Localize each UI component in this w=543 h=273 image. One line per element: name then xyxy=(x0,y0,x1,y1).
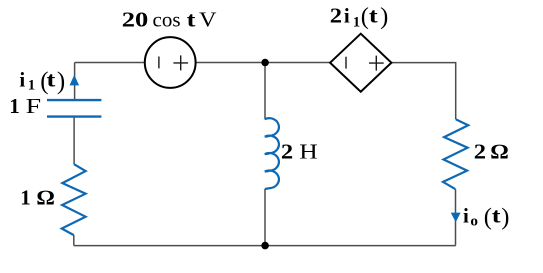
svg-text:i: i xyxy=(344,3,350,27)
svg-text:1: 1 xyxy=(20,185,31,209)
current arrow io(t) pointing down xyxy=(451,213,461,223)
dependent source U1 diamond (2 i1(t)) xyxy=(330,34,391,92)
svg-text:t: t xyxy=(369,3,378,27)
wire: top-left horizontal from left corner to source circle xyxy=(75,62,145,64)
label 1 ohm resistor value xyxy=(20,185,54,209)
label io(t) output current xyxy=(463,203,509,230)
svg-text:2: 2 xyxy=(330,3,342,27)
svg-text:Ω: Ω xyxy=(37,185,55,209)
wire: bottom horizontal rail xyxy=(74,245,456,247)
svg-text:): ) xyxy=(57,68,65,95)
minus terminal bar inside source circle xyxy=(158,57,160,69)
resistor R1 1-ohm zigzag xyxy=(62,164,86,235)
wire: capacitor bottom plate down to 1-ohm resistor xyxy=(73,117,75,165)
wire: middle vertical from top node down to inductor xyxy=(264,63,266,120)
wire: source circle to diamond left vertex (through top node) xyxy=(196,62,331,64)
current arrow i1(t) pointing up xyxy=(70,75,80,86)
svg-text:2: 2 xyxy=(281,140,293,164)
label 1 F capacitor value xyxy=(9,94,41,118)
label 2i1(t) for dependent source xyxy=(330,3,388,31)
svg-text:i: i xyxy=(19,68,25,92)
label 2 H inductor value xyxy=(281,140,318,164)
voltage source V1 circle (20 cos t V) xyxy=(145,37,196,88)
plus sign inside diamond xyxy=(369,56,384,71)
label 2 ohm resistor value xyxy=(474,140,509,164)
svg-text:(: ( xyxy=(361,3,369,30)
svg-text:H: H xyxy=(299,140,318,164)
svg-text:t: t xyxy=(47,68,56,92)
svg-text:Ω: Ω xyxy=(491,140,509,164)
svg-text:1: 1 xyxy=(353,14,361,30)
svg-text:): ) xyxy=(501,204,509,231)
svg-text:1: 1 xyxy=(9,94,19,118)
inductor L1 coil (2 H) xyxy=(265,118,279,189)
wire: left vertical from top-left corner down to capacitor top plate xyxy=(74,63,76,100)
svg-text:V: V xyxy=(199,8,217,32)
svg-text:1: 1 xyxy=(28,78,36,94)
svg-text:cos: cos xyxy=(153,8,181,32)
svg-text:20: 20 xyxy=(122,8,149,32)
minus terminal bar inside diamond xyxy=(345,57,347,69)
label 20 cos t V xyxy=(122,8,217,32)
label i1(t) branch current xyxy=(19,68,65,95)
wire: diamond right vertex to top-right corner down to 2-ohm resistor xyxy=(391,63,455,120)
wire: 1-ohm resistor bottom to bottom-left corner xyxy=(73,235,75,246)
wire: 2-ohm resistor bottom to bottom-right corner xyxy=(455,189,457,246)
resistor R2 2-ohm zigzag xyxy=(443,119,468,189)
svg-text:2: 2 xyxy=(474,140,486,164)
svg-text:): ) xyxy=(380,3,388,30)
wire: inductor bottom to bottom node xyxy=(264,189,266,246)
svg-text:o: o xyxy=(470,214,478,230)
svg-text:i: i xyxy=(463,203,469,227)
capacitor C1 plates (1 F) xyxy=(47,100,101,117)
svg-text:F: F xyxy=(26,94,41,118)
node A top junction dot xyxy=(261,59,269,67)
svg-text:(: ( xyxy=(484,204,492,231)
svg-text:t: t xyxy=(492,203,501,227)
plus sign inside source circle xyxy=(173,55,188,70)
node B bottom junction dot xyxy=(261,242,269,250)
svg-text:t: t xyxy=(187,8,196,32)
